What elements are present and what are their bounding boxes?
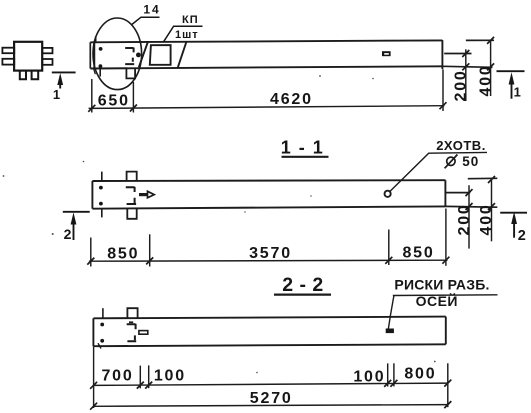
dim line 400 vertical bbox=[491, 179, 493, 242]
dim ext right bbox=[442, 70, 444, 112]
beam top edge bbox=[92, 179, 445, 182]
tick bbox=[385, 257, 392, 264]
tick bbox=[137, 382, 144, 389]
step ext line bbox=[444, 53, 471, 55]
risk shelf bbox=[393, 294, 498, 297]
dim ext f bbox=[447, 363, 449, 407]
top tab bbox=[127, 308, 137, 318]
dim ext a bbox=[90, 238, 92, 267]
svg-text:50: 50 bbox=[462, 154, 479, 169]
tick bbox=[487, 63, 494, 70]
beam bottom edge bbox=[92, 206, 445, 208]
dim ext d bbox=[445, 209, 447, 266]
tick bbox=[462, 63, 469, 70]
plate left slant bbox=[139, 42, 148, 68]
hidden bracket lower bbox=[125, 58, 134, 65]
top ext line bbox=[466, 39, 494, 41]
label KP leader bbox=[163, 26, 202, 42]
hidden bracket upper bbox=[127, 324, 136, 330]
svg-text:1: 1 bbox=[514, 85, 521, 100]
svg-text:1 - 1: 1 - 1 bbox=[281, 138, 325, 158]
beam right edge bbox=[441, 40, 443, 69]
tick bbox=[88, 105, 95, 112]
plate right slant bbox=[178, 42, 187, 68]
dim line 650-4620 bbox=[89, 106, 445, 109]
bottom ext line bbox=[442, 66, 492, 67]
part right tab lower bbox=[42, 59, 52, 65]
tick bbox=[466, 203, 473, 210]
anchor dot upper bbox=[99, 47, 103, 51]
tick bbox=[444, 401, 451, 408]
hidden bracket lower bbox=[127, 335, 136, 341]
dim line row1 bbox=[94, 383, 448, 385]
dim ext b bbox=[139, 366, 141, 389]
beam left edge bbox=[92, 318, 94, 346]
svg-text:850: 850 bbox=[107, 245, 139, 262]
tick bbox=[462, 50, 469, 57]
tick bbox=[488, 203, 495, 210]
part right tab upper bbox=[42, 48, 52, 53]
svg-text:РИСКИ РАЗБ.: РИСКИ РАЗБ. bbox=[394, 276, 489, 292]
tick bbox=[90, 382, 97, 389]
section 2 left line bbox=[63, 211, 90, 213]
axis tick above bbox=[101, 172, 103, 182]
VIEW-2-2 bbox=[93, 274, 497, 349]
tick bbox=[488, 176, 495, 183]
anchor dot upper bbox=[99, 186, 103, 190]
part body square bbox=[14, 42, 42, 71]
TOP-VIEW-LABELS bbox=[132, 3, 203, 43]
bottom tab bbox=[126, 69, 135, 79]
SECTION-MARK-2-LEFT bbox=[63, 212, 90, 242]
tick bbox=[390, 380, 397, 387]
bracket bump bbox=[129, 321, 133, 323]
risk mark bbox=[386, 329, 394, 334]
svg-text:800: 800 bbox=[404, 366, 436, 383]
beam top edge bbox=[90, 40, 442, 42]
section 2 right line bbox=[500, 212, 527, 214]
tick bbox=[442, 257, 449, 264]
svg-text:650: 650 bbox=[98, 92, 130, 109]
svg-text:КП: КП bbox=[182, 14, 199, 26]
plate inner rect bbox=[150, 45, 171, 65]
VIEW-1-1-DIMS bbox=[87, 176, 497, 267]
SECTION-MARK-1-RIGHT bbox=[497, 71, 525, 99]
section 1 right line bbox=[497, 70, 525, 72]
tick bbox=[440, 102, 447, 109]
svg-text:200: 200 bbox=[453, 69, 470, 101]
dim ext b bbox=[149, 234, 151, 266]
svg-text:3570: 3570 bbox=[249, 245, 292, 262]
PART-SYMBOL bbox=[2, 42, 52, 80]
axis tick below bbox=[99, 68, 101, 76]
speckles bbox=[3, 75, 436, 373]
svg-text:5270: 5270 bbox=[250, 390, 293, 407]
VIEW-2-2-DIMS bbox=[90, 346, 451, 409]
beam left inner edge bbox=[93, 42, 95, 68]
balloon ellipse bbox=[93, 18, 142, 90]
section 2 right arrow bbox=[513, 218, 515, 238]
svg-text:100: 100 bbox=[353, 369, 385, 386]
part left tab lower bbox=[2, 59, 14, 65]
svg-text:2: 2 bbox=[64, 226, 72, 242]
hole circle bbox=[385, 191, 391, 197]
beam bottom edge bbox=[90, 66, 442, 68]
svg-text:2 - 2: 2 - 2 bbox=[282, 274, 324, 296]
svg-text:400: 400 bbox=[477, 64, 494, 96]
svg-text:850: 850 bbox=[402, 245, 434, 262]
part bottom tab right bbox=[32, 71, 39, 80]
section 1 left arrow bbox=[59, 80, 61, 89]
anchor dot lower bbox=[99, 202, 103, 206]
anchor dot lower bbox=[99, 64, 103, 68]
anchor dot upper bbox=[100, 323, 104, 327]
beam right edge bbox=[444, 180, 446, 206]
hidden bracket upper bbox=[126, 187, 135, 192]
dim line 200 vertical bbox=[465, 49, 467, 101]
dim line 400 vertical bbox=[490, 40, 492, 96]
axis tick above bbox=[102, 308, 104, 318]
anchor dot lower bbox=[100, 339, 104, 343]
SECTION-MARK-1-LEFT bbox=[52, 72, 76, 102]
tick bbox=[146, 257, 153, 264]
VIEW-1-1 bbox=[92, 138, 487, 219]
tick bbox=[384, 380, 391, 387]
risk mark plan bbox=[382, 51, 391, 56]
tick bbox=[90, 403, 97, 410]
beam right edge bbox=[445, 317, 447, 345]
beam left edge bbox=[91, 181, 93, 209]
dim ext 650 bbox=[132, 82, 134, 113]
axis stub below slanted bbox=[94, 69, 96, 74]
axis tick above bbox=[95, 36, 97, 42]
part bottom tab left bbox=[20, 71, 26, 80]
small plate bbox=[139, 331, 148, 335]
diameter symbol bbox=[447, 157, 455, 165]
dim ext left bbox=[91, 79, 93, 113]
dim ext c bbox=[148, 365, 150, 388]
svg-text:ОСЕЙ: ОСЕЙ bbox=[416, 292, 458, 309]
dim ext d bbox=[387, 363, 389, 386]
hidden bracket lower bbox=[127, 198, 137, 204]
beam top edge bbox=[93, 317, 445, 319]
top ext line bbox=[468, 177, 498, 179]
svg-text:200: 200 bbox=[456, 203, 473, 235]
beam left edge bbox=[89, 42, 91, 68]
hole leader bbox=[390, 152, 487, 191]
direction arrow tail bbox=[139, 193, 148, 196]
tick bbox=[466, 189, 473, 196]
svg-text:14: 14 bbox=[143, 3, 160, 17]
tick bbox=[130, 105, 137, 112]
svg-text:4620: 4620 bbox=[270, 91, 313, 108]
top tab bbox=[127, 172, 137, 181]
TOP-VIEW-DIMS bbox=[88, 37, 494, 113]
dim ext e bbox=[393, 363, 395, 386]
svg-text:2: 2 bbox=[518, 228, 526, 244]
hidden bracket upper bbox=[125, 48, 133, 53]
svg-text:2ХОТВ.: 2ХОТВ. bbox=[436, 138, 486, 153]
svg-text:1шт: 1шт bbox=[175, 29, 199, 41]
section 1 right arrow bbox=[511, 80, 513, 99]
section 2 left arrow bbox=[73, 218, 75, 240]
bottom tab bbox=[127, 209, 136, 219]
axis tick below bbox=[101, 209, 103, 218]
beam bottom edge bbox=[93, 344, 445, 346]
part left tab upper bbox=[2, 48, 14, 54]
dim line row2 total bbox=[94, 405, 448, 407]
SECTION-MARK-2-RIGHT bbox=[500, 212, 527, 244]
section 1 left line bbox=[52, 71, 76, 73]
svg-text:1: 1 bbox=[53, 87, 60, 102]
svg-text:700: 700 bbox=[101, 368, 133, 385]
dim line 200 vertical bbox=[468, 185, 470, 248]
svg-text:400: 400 bbox=[478, 203, 495, 235]
svg-text:100: 100 bbox=[154, 367, 186, 384]
step ext line bbox=[445, 192, 470, 194]
TOP-VIEW bbox=[90, 18, 442, 90]
tick bbox=[87, 258, 94, 265]
dim ext a bbox=[93, 346, 95, 408]
tick bbox=[444, 380, 451, 387]
bottom ext line bbox=[445, 205, 497, 208]
label 14 leader bbox=[132, 17, 160, 24]
direction arrow head bbox=[148, 191, 155, 198]
slant tick bbox=[98, 343, 101, 348]
dim line bottom bbox=[89, 260, 448, 261]
dim ext c bbox=[388, 230, 390, 266]
ink blob bbox=[136, 53, 141, 58]
tick bbox=[487, 37, 494, 44]
tick bbox=[145, 382, 152, 389]
risk leader bbox=[388, 296, 394, 329]
